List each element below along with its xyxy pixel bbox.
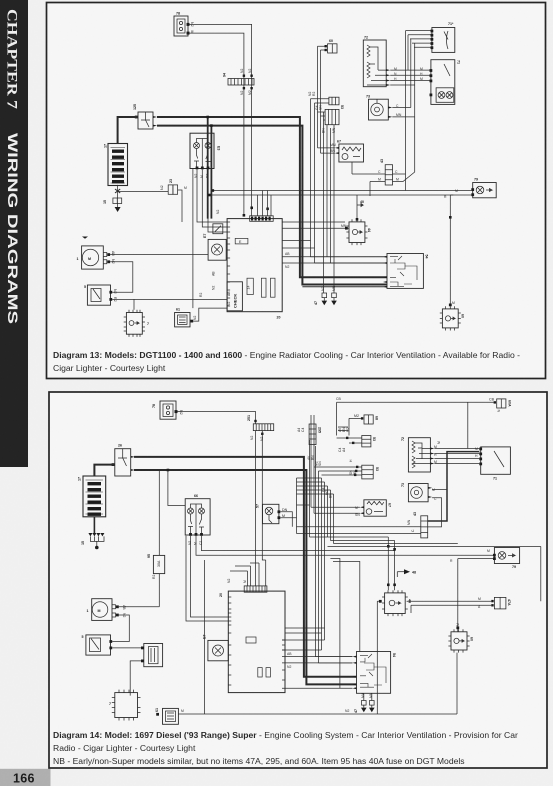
- comb 53 lower: [362, 465, 379, 479]
- wire motor1 bottom to switch 5: [112, 615, 129, 642]
- wire 5 to 96: [112, 647, 141, 649]
- switch unit 66: [185, 494, 210, 536]
- nested corner wires d14: [285, 478, 334, 633]
- resistor 67: [330, 140, 364, 163]
- connector 23: [160, 179, 178, 194]
- thermo switch 5 d14: [82, 635, 113, 655]
- motor 73: [366, 95, 392, 121]
- instrument panel 20 d14: [219, 586, 285, 693]
- control unit 60: [440, 304, 465, 331]
- comb 43: [380, 159, 393, 185]
- side drop wires d14: [330, 559, 359, 689]
- wire 17 to ground15: [93, 517, 95, 533]
- relay 71 d14: [479, 447, 510, 481]
- connector 79 d14: [493, 548, 520, 570]
- connector 60A: [489, 398, 512, 409]
- fuse 95: [147, 554, 165, 574]
- wire 60 taps: [318, 46, 325, 50]
- gauge 14 inside 20: [247, 278, 254, 294]
- cigar lighter 44: [345, 219, 371, 245]
- comb 251: [247, 415, 274, 435]
- ground 15 multi: [81, 517, 104, 550]
- wire labels texture d13: [184, 67, 458, 306]
- bus verticals cluster: [406, 31, 415, 174]
- resistor pack 72: [363, 36, 390, 87]
- junction pins on thick bus: [206, 116, 451, 221]
- wires 72 to 71 d14: [434, 449, 479, 464]
- bundle vertical b3: [317, 46, 319, 148]
- wire motor1 AB to blower unit: [110, 254, 208, 256]
- wire thick drop to panel 20 b: [210, 126, 212, 219]
- bundle vertical b2: [314, 103, 316, 263]
- wire extra drop: [186, 536, 228, 621]
- wire 44 left: [377, 601, 379, 714]
- ground 15: [103, 198, 122, 212]
- wire E3 left drop: [192, 169, 194, 309]
- diagram 13 frame: [47, 3, 546, 379]
- resistor pack 72 d14: [401, 437, 434, 472]
- gauge 16 inside 20: [261, 278, 266, 297]
- fuse 40 symbol: [357, 200, 364, 207]
- wire 251 drop b: [262, 431, 265, 586]
- junction pin bus66: [167, 469, 170, 472]
- blower E7 unit: [203, 234, 226, 261]
- comb 295: [309, 424, 321, 445]
- bracket 1 inside 20: [246, 637, 256, 643]
- bundle vertical b6: [333, 125, 335, 293]
- wire 78 top to box20: [190, 24, 252, 215]
- connector 61 d14: [155, 708, 178, 724]
- wire 66 p2 to 79: [196, 536, 494, 555]
- connector 61: [175, 308, 194, 327]
- thermo switch 5: [84, 285, 117, 305]
- wire motor1 top to fuse95 drop: [119, 606, 160, 608]
- page number box: [0, 769, 51, 786]
- wire 67 feeds: [318, 148, 335, 153]
- wire 7 up: [133, 299, 135, 309]
- motor 1 radiator fan: [77, 237, 116, 270]
- wire 61 to panel: [193, 308, 227, 321]
- wire 79 to 60: [449, 195, 451, 304]
- control unit 7: [124, 310, 149, 337]
- wire 44 to wire79: [356, 195, 358, 222]
- wire 66 p1: [191, 536, 229, 617]
- wire drops into 44: [388, 537, 394, 590]
- control unit 60 d14: [448, 626, 473, 652]
- wire E3 pin1 to panel: [197, 169, 227, 222]
- junction pins on long wires: [208, 189, 269, 210]
- wire thick drop to panel 20: [207, 117, 209, 219]
- labels left of panel: [193, 271, 216, 320]
- blower E7 d14: [203, 635, 229, 661]
- wire E3 pin3 to panel: [208, 169, 227, 232]
- wires 72 to 71: [390, 70, 429, 85]
- wire drop from CB: [467, 402, 469, 448]
- wire drop into panel comb: [258, 191, 272, 216]
- wire 60 bottom long to 61: [178, 653, 457, 714]
- bundle vertical b4: [320, 50, 322, 153]
- connector 78: [152, 401, 183, 419]
- long horizontals mid d14: [310, 537, 541, 601]
- diode 48: [397, 569, 416, 577]
- sensor 96: [141, 644, 163, 667]
- wire 23 right stub: [178, 190, 182, 222]
- wire thick 125 left to fuse 17: [118, 117, 138, 144]
- comb 53 upper: [329, 97, 339, 105]
- long drop wire mid: [204, 560, 206, 714]
- connector 60: [325, 39, 338, 53]
- wire 78 bottom to box20: [190, 33, 244, 216]
- wire 60A long left: [337, 402, 494, 435]
- relay 125: [133, 104, 157, 129]
- gauge 2 inside 20: [271, 278, 276, 297]
- wires 47A left: [407, 601, 492, 613]
- connector 47A: [491, 597, 511, 609]
- diagram 14 frame: [49, 392, 547, 768]
- relay 54: [383, 254, 429, 289]
- grounds 47: [314, 293, 337, 305]
- wire E3 pin2 to panel: [202, 169, 227, 227]
- wire thick bus upper d14: [134, 457, 357, 677]
- wire thick 54 pin: [302, 286, 387, 288]
- relay 54 d14: [353, 652, 397, 694]
- wires 79: [213, 174, 472, 195]
- wire fuse95 drop: [158, 470, 160, 555]
- wires 73 right: [392, 108, 414, 117]
- wire bus to 66: [168, 470, 185, 506]
- ignition sub box: [213, 224, 223, 234]
- extra comb drops: [230, 563, 259, 586]
- heater switch 57: [256, 504, 288, 524]
- wire thick bus lower: [157, 126, 387, 285]
- wire 54 upper feeds: [311, 257, 388, 263]
- wires 73 right d14: [428, 490, 447, 527]
- sidebar black band: [0, 0, 28, 467]
- wire thick bus lower d14: [134, 470, 357, 684]
- resistor 67 d14: [360, 500, 392, 516]
- relay 26: [112, 444, 135, 477]
- bracket 16 inside 20: [258, 668, 262, 677]
- bundle vertical b7: [326, 125, 328, 257]
- wire 95 down to motor 1: [158, 574, 160, 607]
- wires 71s pins left: [406, 31, 431, 48]
- wires 67 feeds d14: [311, 474, 360, 513]
- wire motor1 N2 down to switch 5: [110, 262, 133, 292]
- wires 53 taps: [314, 427, 362, 475]
- bracket 2 inside 20: [266, 668, 270, 677]
- relay 71s upper: [431, 22, 455, 52]
- bundle vertical b8: [330, 128, 332, 263]
- grounds 47 d14: [354, 693, 375, 713]
- CHECK unit inside 20: [227, 282, 242, 311]
- fusebox 17: [78, 476, 106, 517]
- wire 78 to comb 251: [178, 412, 256, 424]
- wire thick bus upper: [157, 117, 387, 277]
- connector 94 comb: [223, 73, 255, 89]
- wire 23 left to ground wire: [118, 191, 169, 193]
- fusebox 17: [104, 144, 128, 186]
- instrument panel 20: [213, 216, 282, 320]
- cigar lighter 44 d14: [379, 590, 412, 616]
- wire 68 left: [349, 418, 361, 435]
- motor 1 d14: [87, 599, 119, 621]
- bundle vertical b5: [323, 112, 325, 293]
- connector 68: [354, 414, 379, 424]
- wire 57 to 43: [280, 512, 296, 527]
- wire 79 lower long: [209, 194, 453, 196]
- wires panel20 right upper: [282, 222, 345, 248]
- wire 53 taps: [311, 99, 329, 120]
- long wires 43 d14: [297, 505, 421, 534]
- connector 78: [174, 12, 194, 37]
- wire 5 to panel20: [112, 298, 227, 300]
- relay 71: [430, 60, 461, 105]
- tiny labels d14: [122, 397, 501, 713]
- junction X at ground wire: [115, 189, 120, 193]
- wire 295 verticals: [311, 415, 314, 507]
- wire 17 to ground: [117, 185, 119, 198]
- wires panel to 54: [285, 657, 353, 689]
- comb 53 lower: [325, 105, 344, 125]
- wires panel20 right to relay 54: [282, 257, 387, 263]
- switch unit E3: [190, 133, 221, 169]
- wires 43: [352, 117, 415, 196]
- wire 96 down to 7: [130, 661, 141, 696]
- wire thick 26 left to 17: [94, 465, 114, 476]
- comb 53 upper: [362, 436, 376, 447]
- bundle vertical b1: [310, 99, 312, 257]
- wire thick 71 to 43: [428, 452, 480, 521]
- bundle verticals d14: [310, 440, 334, 663]
- wire panel20 to 44: [282, 227, 349, 229]
- comb 43 d14: [413, 512, 428, 538]
- wire 251 drop a: [255, 431, 257, 586]
- wire 79 bottom to 60: [458, 559, 493, 632]
- wire 66 p3 to 44: [202, 536, 395, 551]
- lamp E box inside 20: [235, 238, 248, 244]
- control unit 7 d14: [109, 690, 141, 721]
- bundle links d14: [282, 640, 353, 663]
- connector 79: [471, 178, 496, 198]
- motor 73 d14: [401, 483, 432, 502]
